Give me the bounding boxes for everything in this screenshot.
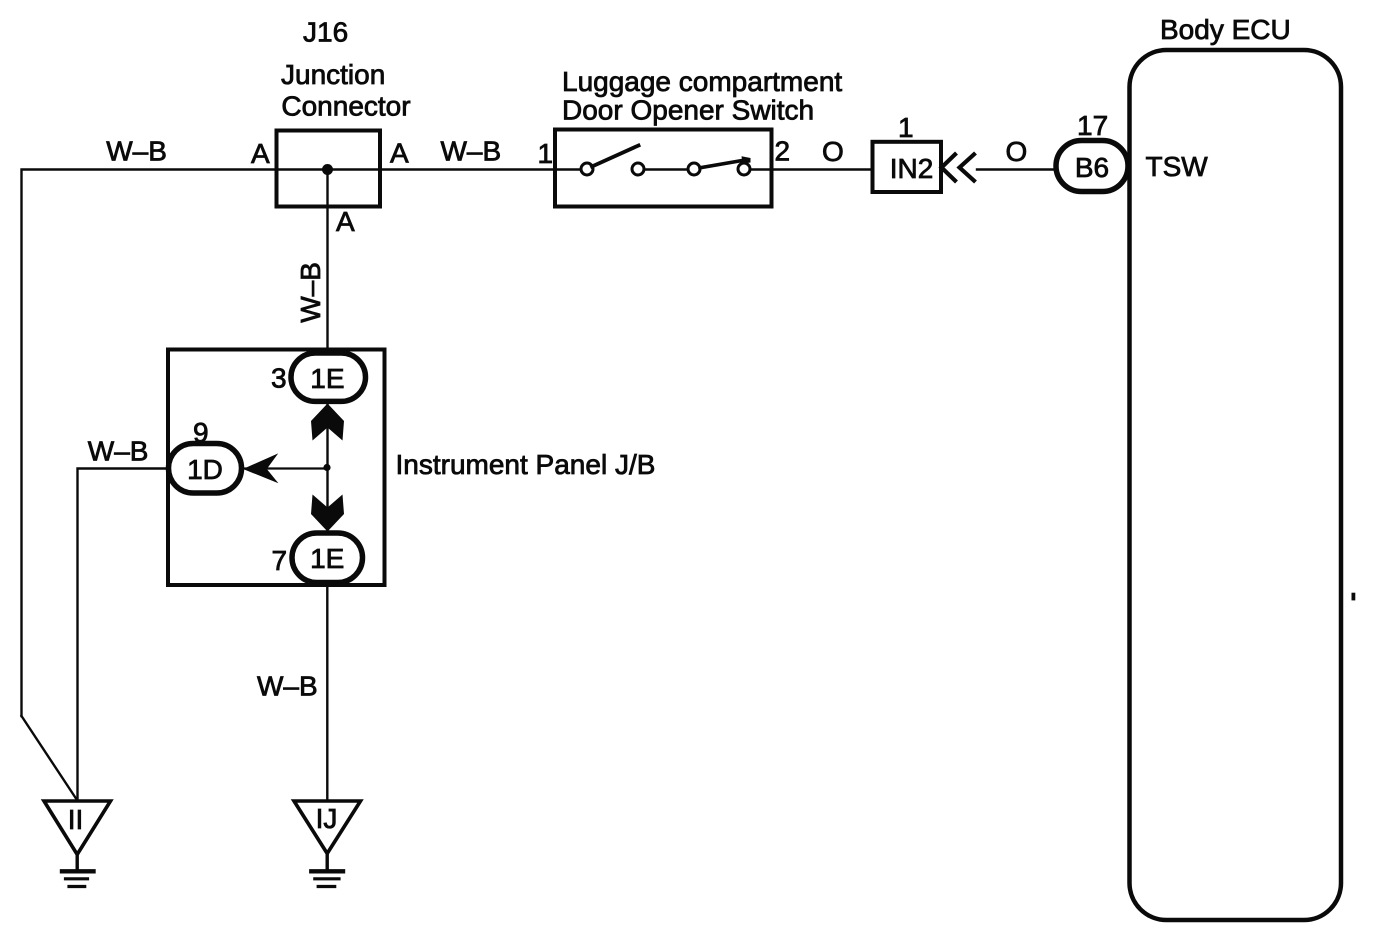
node junction dot (322, 164, 333, 175)
svg-text:3: 3 (271, 363, 287, 394)
artifact speck right edge (1352, 593, 1356, 601)
ground II hatch lines (62, 869, 94, 873)
svg-text:1: 1 (898, 112, 914, 143)
svg-text:W–B: W–B (257, 671, 318, 702)
arrow up in J/B (311, 404, 344, 441)
wire 1D to left and down to ground II (78, 469, 169, 801)
svg-text:IN2: IN2 (890, 153, 934, 184)
svg-text:Body ECU: Body ECU (1160, 14, 1291, 45)
svg-text:W–B: W–B (106, 136, 167, 167)
switch contact circle 3 (688, 163, 700, 175)
arrow double chevron into IN2 (942, 153, 957, 182)
connector IN2 box (873, 142, 942, 192)
wire 1E bottom to ground IJ (326, 582, 328, 800)
svg-text:7: 7 (272, 545, 288, 576)
wire main horizontal W-B left segment (22, 170, 582, 717)
switch lever 1 (open) (592, 146, 639, 167)
wire switch inner link (644, 168, 689, 170)
wire J/B internal horizontal to 1D (244, 467, 328, 469)
connector B6 oval (1056, 141, 1128, 192)
svg-text:IJ: IJ (316, 803, 338, 834)
switch contact circle 4 (738, 163, 750, 175)
wire IN2 arrow to B6 (977, 168, 1056, 170)
svg-text:17: 17 (1077, 110, 1108, 141)
svg-text:1D: 1D (187, 454, 223, 485)
ground triangle II (44, 801, 111, 855)
svg-text:Junction: Junction (281, 59, 385, 90)
svg-text:A: A (251, 138, 270, 169)
connector 1E top oval (291, 353, 366, 401)
svg-text:B6: B6 (1075, 152, 1109, 183)
svg-text:O: O (822, 136, 844, 167)
switch lever 2 (to pin 2 contact) (700, 160, 744, 168)
svg-text:W–B: W–B (88, 436, 149, 467)
svg-text:1E: 1E (310, 543, 344, 574)
svg-text:1: 1 (538, 138, 554, 169)
svg-text:1E: 1E (310, 363, 344, 394)
connector 1E bottom oval (292, 533, 363, 583)
svg-text:W–B: W–B (441, 136, 502, 167)
instrument panel J/B box (168, 350, 385, 586)
svg-text:Connector: Connector (281, 91, 410, 122)
switch contact circle 1 (581, 163, 593, 175)
arrow left to 1D (243, 453, 278, 483)
luggage switch box (555, 130, 772, 207)
svg-text:Instrument Panel J/B: Instrument Panel J/B (396, 449, 656, 480)
svg-text:9: 9 (193, 417, 209, 448)
svg-text:Luggage compartment: Luggage compartment (562, 66, 842, 97)
wire J/B internal vertical (326, 400, 328, 534)
arrow down in J/B (311, 495, 344, 532)
node dot in J/B (323, 464, 330, 471)
svg-text:2: 2 (775, 136, 791, 167)
svg-text:W–B: W–B (295, 262, 326, 323)
ground IJ stub (326, 854, 329, 871)
ground II stub (75, 855, 78, 871)
svg-text:J16: J16 (303, 17, 348, 48)
svg-text:II: II (68, 804, 84, 835)
junction connector J16 box (277, 131, 381, 207)
switch contact circle 2 (632, 163, 644, 175)
wire junction connector down to J/B (326, 170, 328, 354)
ground IJ hatch lines (311, 869, 343, 873)
svg-text:A: A (336, 206, 355, 237)
wire diagonal to ground II (22, 716, 78, 800)
ground triangle IJ (294, 801, 361, 854)
svg-text:O: O (1006, 136, 1028, 167)
svg-text:TSW: TSW (1146, 151, 1209, 182)
svg-text:A: A (390, 138, 409, 169)
wire switch to IN2 (751, 168, 873, 170)
Body ECU box (1130, 50, 1342, 920)
connector 1D oval (169, 444, 242, 494)
svg-text:Door Opener Switch: Door Opener Switch (562, 95, 814, 126)
